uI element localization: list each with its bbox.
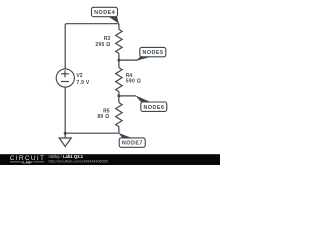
V2 minus sign xyxy=(61,81,69,83)
junction dot node6 xyxy=(117,94,120,97)
wire: left vertical + top horizontal to right branch xyxy=(65,24,119,69)
wire: bottom horizontal xyxy=(65,132,119,134)
svg-text:7.9 V: 7.9 V xyxy=(76,80,90,86)
voltage source V2 circle xyxy=(56,69,74,87)
wire: right vertical top segment xyxy=(118,24,120,30)
wire: between R4 and R5 xyxy=(118,92,120,103)
svg-text:NODE5: NODE5 xyxy=(142,50,163,56)
junction dot ground xyxy=(64,132,67,135)
svg-text:590 Ω: 590 Ω xyxy=(126,78,141,84)
svg-text:290 Ω: 290 Ω xyxy=(95,42,110,48)
ground symbol xyxy=(59,138,71,147)
svg-text:http://circuitlab.com/c3494244: http://circuitlab.com/c3494244d6595 xyxy=(49,159,108,163)
resistor R4 zigzag xyxy=(116,68,122,92)
svg-text:NODE7: NODE7 xyxy=(122,141,143,147)
svg-text:R3: R3 xyxy=(104,36,111,42)
footer bar xyxy=(0,154,220,165)
resistor R3 zigzag xyxy=(116,29,122,53)
wire: stub to NODE5 flag xyxy=(119,59,138,61)
node flag NODE4 xyxy=(92,7,119,23)
svg-text:NODE4: NODE4 xyxy=(94,10,115,16)
svg-text:NODE6: NODE6 xyxy=(143,105,164,111)
wire: between R3 and R4 xyxy=(118,53,120,67)
ground stub wire xyxy=(64,133,66,138)
svg-text:mktlqi / Lab1 Q3.1: mktlqi / Lab1 Q3.1 xyxy=(49,154,84,159)
CircuitLab logo xyxy=(10,155,45,164)
node flag NODE5 xyxy=(136,47,166,61)
node flag NODE7 xyxy=(118,133,145,148)
junction dot node5 xyxy=(117,59,120,62)
svg-text:V2: V2 xyxy=(76,73,82,79)
node flag NODE6 xyxy=(135,95,167,111)
svg-text:≡LAB≡: ≡LAB≡ xyxy=(21,160,33,164)
wire: V2 bottom vertical xyxy=(64,87,66,133)
V2 plus sign xyxy=(61,70,69,77)
resistor R5 zigzag xyxy=(116,103,122,127)
wire: stub to NODE6 flag xyxy=(119,95,136,97)
wire: right vertical bottom segment xyxy=(118,127,120,134)
svg-text:89 Ω: 89 Ω xyxy=(97,114,109,120)
